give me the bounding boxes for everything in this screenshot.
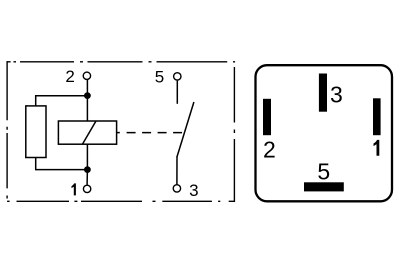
socket pin label 1 xyxy=(374,140,380,156)
wire relay coil K1 to node B xyxy=(86,144,88,169)
wire switch pivot to terminal 3 xyxy=(176,156,178,185)
coil actuator solid stub xyxy=(117,132,120,134)
terminal 5 circle xyxy=(174,73,181,80)
coil actuator dashed link to switch xyxy=(127,132,184,134)
wire terminal 5 fixed contact xyxy=(176,81,178,104)
wire node A to relay coil K1 xyxy=(86,96,88,121)
terminal label 1 xyxy=(72,183,76,195)
terminal 1 circle xyxy=(83,185,90,192)
socket pin 5 blade xyxy=(304,182,344,191)
relay enclosure dash-dot border (left edge) xyxy=(6,61,8,198)
wire bottom branch to node B xyxy=(35,169,87,171)
wire node B to terminal 1 xyxy=(86,170,88,185)
svg-text:5: 5 xyxy=(317,159,330,185)
wire node A to resistor branch xyxy=(36,95,88,97)
svg-text:3: 3 xyxy=(330,82,343,108)
terminal 3 circle xyxy=(173,185,180,192)
relay coil K1 body xyxy=(58,121,116,144)
wire down to resistor R1 xyxy=(35,95,37,106)
svg-text:2: 2 xyxy=(65,67,74,86)
socket pin 2 blade xyxy=(263,99,271,135)
relay socket outline xyxy=(256,65,393,201)
node A junction dot xyxy=(84,92,91,99)
resistor R1 xyxy=(26,106,46,158)
relay enclosure dash-dot border (right edge) xyxy=(233,67,235,202)
relay enclosure dash-dot border (bottom edge) xyxy=(7,200,234,202)
svg-text:5: 5 xyxy=(155,67,164,86)
wire resistor R1 to bottom branch xyxy=(35,158,37,170)
switch blade S1 xyxy=(177,102,194,157)
node B junction dot xyxy=(84,166,91,173)
svg-text:2: 2 xyxy=(263,136,276,162)
relay coil K1 diagonal xyxy=(83,121,97,144)
relay enclosure dash-dot border (top edge) xyxy=(7,61,235,63)
wire terminal 2 to node A xyxy=(86,80,88,96)
socket pin 1 blade xyxy=(373,98,381,135)
socket pin 3 blade xyxy=(319,74,327,112)
terminal 2 circle xyxy=(83,72,90,79)
svg-text:3: 3 xyxy=(189,181,198,200)
